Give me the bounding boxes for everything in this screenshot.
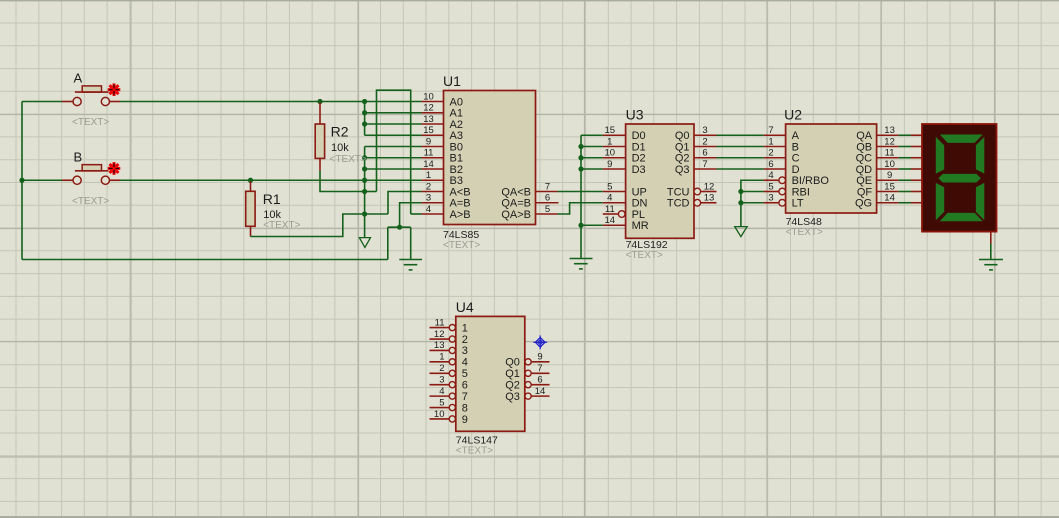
resistor R1 bbox=[246, 181, 255, 236]
svg-text:9: 9 bbox=[887, 170, 892, 181]
svg-text:TCU: TCU bbox=[667, 186, 690, 198]
wire: U2 QC to display bbox=[899, 157, 911, 159]
junction: B-bus / B3 bbox=[362, 178, 367, 183]
svg-text:B: B bbox=[792, 141, 799, 153]
wire: D-bus to MR bbox=[581, 224, 603, 226]
U2 pin 14 (QG) bbox=[855, 193, 899, 210]
wire: D-bus to D0 bbox=[581, 134, 603, 136]
svg-text:10: 10 bbox=[423, 91, 434, 102]
svg-text:QG: QG bbox=[855, 198, 872, 210]
svg-text:3: 3 bbox=[768, 193, 773, 204]
svg-text:3: 3 bbox=[462, 345, 468, 357]
wire: R2 bottom to row bbox=[320, 171, 365, 192]
wire: B-bus to S-bend bbox=[365, 213, 388, 215]
U1 pin 4 (A>B) bbox=[422, 204, 471, 221]
junction: A=B / rail link bbox=[397, 225, 402, 230]
wire: A=B pin wire bbox=[400, 203, 422, 227]
U2 pin 15 (QF) bbox=[857, 181, 899, 198]
svg-text:9: 9 bbox=[537, 352, 542, 363]
svg-text:B2: B2 bbox=[450, 164, 463, 176]
svg-text:10: 10 bbox=[434, 409, 445, 420]
U1 pin 7 (QA<B) bbox=[501, 181, 557, 198]
display segment d bbox=[940, 213, 983, 221]
7-segment display body bbox=[922, 124, 997, 232]
svg-text:4: 4 bbox=[426, 204, 431, 215]
switch A actuator marker bbox=[108, 83, 121, 96]
svg-text:Q3: Q3 bbox=[675, 164, 690, 176]
svg-text:1: 1 bbox=[607, 136, 612, 147]
display segment e bbox=[936, 183, 944, 220]
svg-text:<TEXT>: <TEXT> bbox=[786, 227, 823, 238]
U1 pin 11 (B1) bbox=[422, 148, 463, 165]
U3 pin 3 (Q0) bbox=[675, 125, 717, 142]
svg-text:D3: D3 bbox=[632, 164, 646, 176]
display pin 7 bbox=[911, 202, 922, 204]
wire: loop to switch A bbox=[22, 101, 62, 103]
U4 pin 13 (input 3) bbox=[430, 340, 468, 357]
svg-text:TCD: TCD bbox=[667, 198, 690, 210]
U4 pin 3 (input 6) bbox=[430, 375, 468, 392]
U3 pin 14 (MR) bbox=[603, 215, 649, 232]
junction: net A / A-bus bbox=[362, 99, 367, 104]
svg-text:7: 7 bbox=[545, 181, 550, 192]
svg-text:<TEXT>: <TEXT> bbox=[456, 445, 493, 456]
U2 pin 13 (QA) bbox=[856, 125, 898, 142]
display pin 4 bbox=[911, 168, 922, 170]
IC U3 74LS192 body bbox=[626, 124, 694, 238]
U1 pin 3 (A=B) bbox=[422, 193, 471, 210]
svg-text:11: 11 bbox=[435, 317, 445, 328]
svg-text:11: 11 bbox=[605, 204, 615, 215]
svg-text:1: 1 bbox=[439, 352, 444, 363]
svg-text:13: 13 bbox=[434, 340, 445, 351]
U2 pin 6 (D) bbox=[764, 159, 800, 176]
U3 pin 1 (D1) bbox=[603, 136, 646, 153]
wire: rail link right leg bbox=[410, 227, 412, 259]
svg-text:3: 3 bbox=[702, 125, 707, 136]
U1 pin 2 (A<B) bbox=[422, 181, 471, 198]
wire: left loop vertical bbox=[21, 102, 23, 260]
svg-text:11: 11 bbox=[424, 148, 434, 159]
wire: B-bus to B2 bbox=[365, 168, 422, 170]
svg-text:QA<B: QA<B bbox=[501, 186, 531, 198]
U4 pin 9 (Q0) bbox=[505, 352, 549, 369]
svg-text:QC: QC bbox=[856, 153, 873, 165]
svg-text:2: 2 bbox=[768, 148, 773, 159]
display segment a bbox=[940, 135, 983, 143]
wire: enable bus to LT bbox=[741, 202, 764, 204]
U1 pin 6 (QA=B) bbox=[501, 193, 558, 210]
wire: bottom rail bbox=[22, 259, 388, 261]
svg-text:D0: D0 bbox=[632, 130, 646, 142]
svg-text:4: 4 bbox=[439, 386, 444, 397]
resistor R2 bbox=[315, 103, 324, 171]
U4 pin 10 (input 9) bbox=[430, 409, 468, 426]
wire: switch B to B-bus bbox=[120, 179, 365, 181]
junction: net B / R1 top bbox=[248, 178, 253, 183]
switch A (push button) bbox=[62, 86, 120, 106]
wire: B-bus vertical bbox=[364, 147, 366, 238]
wire: Q2 to U2 bbox=[717, 157, 764, 159]
U2 pin 7 (A) bbox=[764, 125, 800, 142]
svg-text:DN: DN bbox=[632, 198, 648, 210]
svg-text:5: 5 bbox=[607, 181, 612, 192]
svg-text:<TEXT>: <TEXT> bbox=[263, 220, 300, 231]
svg-text:15: 15 bbox=[884, 181, 895, 192]
wire: rail link horizontal bbox=[388, 226, 411, 228]
U2 pin 9 (QE) bbox=[856, 170, 898, 187]
junction: A-bus / A1 bbox=[362, 110, 367, 115]
svg-text:13: 13 bbox=[423, 114, 434, 125]
junction: B-bus / B1 bbox=[362, 155, 367, 160]
U3 pin 9 (D3) bbox=[603, 159, 646, 176]
wire: QA>B to DN bbox=[558, 203, 603, 214]
svg-text:10: 10 bbox=[605, 148, 616, 159]
wire: D-bus to D2 bbox=[581, 157, 603, 159]
wire: A-bus to A2 bbox=[365, 123, 422, 125]
wire: Q1 to U2 bbox=[717, 146, 764, 148]
svg-text:U3: U3 bbox=[626, 107, 644, 123]
U3 pin 5 (UP) bbox=[603, 181, 647, 198]
svg-text:QB: QB bbox=[856, 141, 872, 153]
U4 pin 2 (input 5) bbox=[430, 363, 468, 380]
svg-text:14: 14 bbox=[605, 215, 616, 226]
U3 pin 2 (Q1) bbox=[675, 136, 717, 153]
U2 pin 12 (QB) bbox=[856, 136, 898, 153]
U3 pin 11 (PL) bbox=[603, 204, 645, 221]
svg-text:PL: PL bbox=[632, 209, 645, 221]
wire: staple to A>B bbox=[411, 213, 422, 215]
U2 pin 3 (LT) bbox=[764, 193, 804, 210]
U3 pin 13 (TCD) bbox=[667, 193, 717, 210]
svg-text:13: 13 bbox=[884, 125, 895, 136]
wire: U2 QA to display bbox=[899, 134, 911, 136]
svg-text:A<B: A<B bbox=[450, 186, 471, 198]
svg-text:Q0: Q0 bbox=[505, 357, 520, 369]
svg-text:B3: B3 bbox=[450, 175, 463, 187]
svg-text:QA>B: QA>B bbox=[501, 209, 531, 221]
ground (bars) below U1 bbox=[399, 260, 422, 270]
wire: D-bus to D1 bbox=[581, 146, 603, 148]
svg-text:11: 11 bbox=[885, 148, 895, 159]
svg-text:14: 14 bbox=[884, 193, 895, 204]
wire: D-bus to D3 bbox=[581, 168, 603, 170]
origin marker (blue) bbox=[533, 335, 547, 349]
IC U4 74LS147 body bbox=[456, 316, 525, 431]
svg-text:13: 13 bbox=[704, 193, 715, 204]
svg-text:8: 8 bbox=[462, 402, 468, 414]
wire: U2 QB to display bbox=[899, 146, 911, 148]
svg-text:BI/RBO: BI/RBO bbox=[792, 175, 830, 187]
svg-text:1: 1 bbox=[462, 322, 468, 334]
svg-text:7: 7 bbox=[537, 363, 542, 374]
wire: R1 bottom to row bbox=[251, 214, 365, 237]
U4 pin 4 (input 7) bbox=[430, 386, 468, 403]
svg-text:B0: B0 bbox=[450, 141, 463, 153]
display segment f bbox=[936, 137, 944, 174]
svg-text:10k: 10k bbox=[331, 142, 349, 154]
svg-text:5: 5 bbox=[462, 368, 468, 380]
U1 pin 9 (B0) bbox=[422, 136, 463, 153]
U1 pin 12 (A1) bbox=[422, 103, 463, 120]
wire: U2 QE to display bbox=[899, 179, 911, 181]
U3 pin 7 (Q3) bbox=[675, 159, 717, 176]
svg-text:6: 6 bbox=[537, 375, 542, 386]
display pin 1 bbox=[911, 134, 922, 136]
junction: D-bus / D1 bbox=[578, 144, 583, 149]
display segment b bbox=[976, 137, 984, 174]
svg-text:A>B: A>B bbox=[450, 209, 471, 221]
op-amp: none; IC U1 74LS85 body bbox=[444, 91, 536, 225]
svg-text:C: C bbox=[792, 153, 800, 165]
U2 pin 11 (QC) bbox=[856, 148, 899, 165]
svg-text:Q1: Q1 bbox=[505, 368, 520, 380]
U2 pin 10 (QD) bbox=[856, 159, 899, 176]
U1 pin 15 (A3) bbox=[422, 125, 463, 142]
svg-text:4: 4 bbox=[462, 357, 468, 369]
svg-text:6: 6 bbox=[462, 380, 468, 392]
svg-text:QA=B: QA=B bbox=[501, 198, 531, 210]
wire: B-bus to B0 bbox=[365, 146, 422, 148]
svg-text:7: 7 bbox=[702, 159, 707, 170]
wire: Q3 to U2 bbox=[717, 168, 764, 170]
wire: D-bus vertical bbox=[580, 135, 582, 258]
ground (arrow) below B-bus bbox=[359, 238, 370, 248]
junction: R2 net / B-bus bbox=[362, 189, 367, 194]
svg-text:14: 14 bbox=[423, 159, 434, 170]
svg-text:MR: MR bbox=[632, 220, 649, 232]
svg-text:4: 4 bbox=[607, 193, 612, 204]
svg-text:6: 6 bbox=[545, 193, 550, 204]
junction: A-bus / A2 bbox=[362, 121, 367, 126]
wire: QA<B to UP bbox=[558, 191, 603, 193]
junction: loop / switch B bbox=[19, 178, 24, 183]
U2 pin 2 (C) bbox=[764, 148, 800, 165]
svg-text:A: A bbox=[74, 71, 83, 86]
svg-text:Q2: Q2 bbox=[675, 153, 690, 165]
junction: D-bus / D3 bbox=[578, 166, 583, 171]
svg-text:3: 3 bbox=[426, 193, 431, 204]
display segment g bbox=[938, 174, 981, 183]
svg-text:QE: QE bbox=[856, 175, 872, 187]
svg-text:<TEXT>: <TEXT> bbox=[443, 240, 480, 251]
svg-text:<TEXT>: <TEXT> bbox=[72, 196, 109, 207]
U1 pin 1 (B3) bbox=[422, 170, 463, 187]
U3 pin 4 (DN) bbox=[603, 193, 648, 210]
svg-text:1: 1 bbox=[426, 170, 431, 181]
wire: BI/RBO to enable bus bbox=[741, 180, 764, 226]
svg-text:9: 9 bbox=[607, 159, 612, 170]
U4 pin 14 (Q3) bbox=[505, 386, 549, 403]
svg-text:D1: D1 bbox=[632, 141, 646, 153]
svg-text:2: 2 bbox=[462, 334, 468, 346]
svg-text:U4: U4 bbox=[456, 299, 474, 315]
U3 pin 10 (D2) bbox=[603, 148, 646, 165]
U1 pin 13 (A2) bbox=[422, 114, 463, 131]
svg-text:2: 2 bbox=[702, 136, 707, 147]
junction: R1 net / B-bus bbox=[362, 211, 367, 216]
svg-text:U1: U1 bbox=[443, 73, 461, 89]
svg-text:<TEXT>: <TEXT> bbox=[330, 154, 367, 165]
U4 pin 12 (input 2) bbox=[430, 329, 468, 346]
svg-text:QD: QD bbox=[856, 164, 873, 176]
svg-text:4: 4 bbox=[768, 170, 773, 181]
U1 pin 5 (QA>B) bbox=[501, 204, 557, 221]
svg-text:12: 12 bbox=[704, 181, 715, 192]
wire: Q0 to U2 bbox=[717, 134, 764, 136]
U4 pin 7 (Q1) bbox=[505, 363, 549, 380]
ground (arrow) below U2 enable bus bbox=[735, 227, 747, 237]
svg-text:9: 9 bbox=[462, 414, 468, 426]
svg-text:7: 7 bbox=[462, 391, 468, 403]
display common pin bbox=[990, 232, 992, 244]
svg-text:1: 1 bbox=[768, 136, 773, 147]
wire: staple left leg bbox=[377, 90, 411, 214]
svg-text:2: 2 bbox=[439, 363, 444, 374]
svg-text:7: 7 bbox=[768, 125, 773, 136]
U4 pin 1 (input 4) bbox=[430, 352, 468, 369]
svg-text:UP: UP bbox=[632, 186, 647, 198]
wire: U2 QF to display bbox=[899, 191, 911, 193]
U2 pin 4 (BI/RBO) bbox=[764, 170, 830, 187]
U3 pin 12 (TCU) bbox=[667, 181, 717, 198]
U3 pin 15 (D0) bbox=[603, 125, 646, 142]
switch B (push button) bbox=[62, 165, 120, 185]
display pin 3 bbox=[911, 157, 922, 159]
svg-text:14: 14 bbox=[535, 386, 546, 397]
U4 pin 5 (input 8) bbox=[430, 397, 468, 414]
svg-text:6: 6 bbox=[702, 148, 707, 159]
IC U2 74LS48 body bbox=[786, 124, 877, 213]
wire: B-bus to B1 bbox=[365, 157, 422, 159]
svg-text:QA: QA bbox=[856, 130, 873, 142]
wire: B-bus to B3 bbox=[365, 179, 422, 181]
wire: rail link left leg bbox=[387, 227, 389, 259]
ground (bars) below display bbox=[979, 260, 1003, 270]
svg-text:6: 6 bbox=[768, 159, 773, 170]
ground (bars) below U3 bbox=[570, 259, 593, 269]
wire: B-bus to staple bbox=[365, 191, 377, 193]
svg-text:15: 15 bbox=[423, 125, 434, 136]
svg-text:<TEXT>: <TEXT> bbox=[72, 117, 109, 128]
wire: A-bus to A1 bbox=[365, 112, 422, 114]
svg-text:R2: R2 bbox=[331, 124, 349, 140]
svg-text:B: B bbox=[74, 149, 83, 164]
svg-text:5: 5 bbox=[545, 204, 550, 215]
svg-text:A0: A0 bbox=[450, 96, 463, 108]
svg-text:<TEXT>: <TEXT> bbox=[626, 250, 663, 261]
svg-text:9: 9 bbox=[426, 136, 431, 147]
display pin 6 bbox=[911, 191, 922, 193]
svg-text:15: 15 bbox=[605, 125, 616, 136]
wire: A-bus vertical bbox=[364, 102, 366, 136]
svg-text:U2: U2 bbox=[784, 107, 802, 123]
wire: A-bus to A3 bbox=[365, 134, 422, 136]
svg-text:QF: QF bbox=[857, 186, 873, 198]
svg-text:D2: D2 bbox=[632, 153, 646, 165]
display pin 5 bbox=[911, 179, 922, 181]
U3 pin 6 (Q2) bbox=[675, 148, 717, 165]
wire: loop to switch B bbox=[22, 179, 62, 181]
svg-text:R1: R1 bbox=[263, 191, 281, 207]
U1 pin 10 (A0) bbox=[422, 91, 463, 108]
wire: switch A to U1 A0 bbox=[120, 101, 422, 103]
wire: U2 QG to display bbox=[899, 202, 911, 204]
display segment c bbox=[976, 183, 984, 220]
junction: B-bus / B2 bbox=[362, 166, 367, 171]
U2 pin 1 (B) bbox=[764, 136, 799, 153]
svg-text:A: A bbox=[792, 130, 800, 142]
wire: enable bus to RBI bbox=[741, 191, 764, 193]
svg-text:D: D bbox=[792, 164, 800, 176]
svg-text:5: 5 bbox=[439, 397, 444, 408]
svg-text:Q3: Q3 bbox=[505, 391, 520, 403]
U2 pin 5 (RBI) bbox=[764, 181, 810, 198]
svg-text:A1: A1 bbox=[450, 108, 463, 120]
U4 pin 6 (Q2) bbox=[505, 375, 549, 392]
svg-text:12: 12 bbox=[434, 329, 445, 340]
svg-text:A3: A3 bbox=[450, 130, 463, 142]
junction: enable bus / LT bbox=[738, 200, 743, 205]
svg-text:12: 12 bbox=[884, 136, 895, 147]
svg-text:A=B: A=B bbox=[450, 198, 471, 210]
svg-text:Q2: Q2 bbox=[505, 380, 520, 392]
junction: enable bus / RBI bbox=[738, 189, 743, 194]
svg-text:2: 2 bbox=[426, 181, 431, 192]
svg-text:A2: A2 bbox=[450, 119, 463, 131]
display pin 2 bbox=[911, 146, 922, 148]
svg-text:5: 5 bbox=[768, 181, 773, 192]
wire: S-bend to A<B bbox=[388, 192, 422, 215]
svg-text:12: 12 bbox=[423, 103, 434, 114]
U1 pin 14 (B2) bbox=[422, 159, 463, 176]
svg-text:RBI: RBI bbox=[792, 186, 810, 198]
svg-text:B1: B1 bbox=[450, 153, 463, 165]
svg-text:LT: LT bbox=[792, 198, 804, 210]
svg-text:Q0: Q0 bbox=[675, 130, 690, 142]
svg-text:Q1: Q1 bbox=[675, 141, 690, 153]
wire: U2 QD to display bbox=[899, 168, 911, 170]
junction: net A / R2 top bbox=[317, 99, 322, 104]
U4 pin 11 (input 1) bbox=[430, 317, 468, 334]
svg-text:3: 3 bbox=[439, 375, 444, 386]
junction: D-bus / MR bbox=[578, 223, 583, 228]
svg-text:10: 10 bbox=[884, 159, 895, 170]
wire: display common to ground bbox=[990, 244, 992, 260]
junction: D-bus / D2 bbox=[578, 155, 583, 160]
switch B actuator marker bbox=[108, 162, 121, 175]
